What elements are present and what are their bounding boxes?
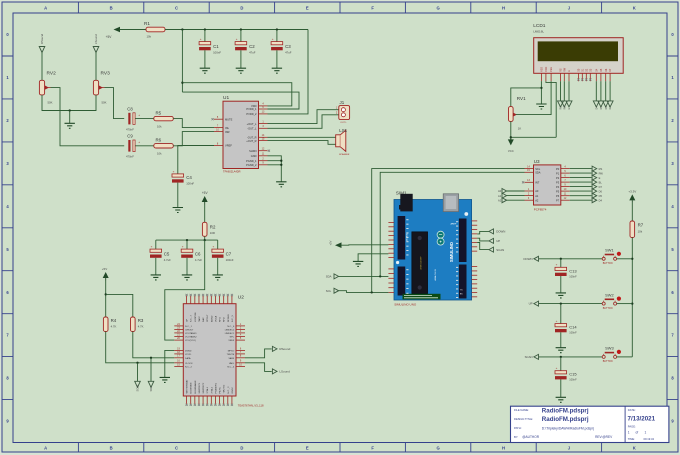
svg-text:SHDN: SHDN [249,149,256,153]
svg-text:K: K [633,6,636,11]
svg-text:INT: INT [535,181,540,185]
junction SCLK tap [136,362,138,364]
svg-text:RadioFM.pdsprj: RadioFM.pdsprj [542,416,589,423]
svg-text:10k: 10k [638,229,643,233]
ground below C15 [556,397,566,402]
wire R7 to button rail [631,238,633,357]
terminal BL (U3 port) [592,180,602,185]
svg-text:4.7uF: 4.7uF [164,258,171,262]
svg-text:D: D [240,6,243,11]
svg-text:R3: R3 [138,318,144,323]
potentiometer RV2 [39,71,56,105]
wire U2 VAFL to LSound [245,363,272,372]
svg-text:N.C._6: N.C._6 [227,326,235,328]
svg-text:+5V: +5V [202,191,209,195]
svg-text:470nF: 470nF [126,155,134,159]
svg-text:DATA: DATA [185,357,191,360]
wire LCD E down [568,81,570,101]
svg-text:REV:@REV: REV:@REV [595,435,613,439]
wire C9 to R6 [135,145,153,147]
svg-text:AGND: AGND [210,315,213,322]
svg-text:INR: INR [225,130,230,134]
wire U3 P1 to RW [570,172,592,174]
terminal RW (LCD) [561,101,567,110]
svg-text:1: 1 [628,430,630,434]
potentiometer RV3 [93,71,110,105]
svg-text:TPA6021A4DR: TPA6021A4DR [223,170,241,174]
svg-text:D6: D6 [599,189,603,193]
wire +3.3V to R7 [631,203,633,221]
wire +OUT_L to J1 pin1 [268,110,339,124]
svg-text:INL: INL [225,126,230,130]
svg-text:BUSMODE: BUSMODE [191,382,193,394]
svg-text:ATMEGA328P: ATMEGA328P [419,256,422,270]
wire LSound to RV3 [95,53,97,81]
svg-text:DESIGN TITLE:: DESIGN TITLE: [514,417,533,421]
svg-text:F: F [371,446,374,451]
svg-text:RV3: RV3 [101,71,111,77]
svg-text:E: E [306,446,309,451]
svg-text:100nF: 100nF [569,274,577,278]
wire SDA tap down [150,358,152,382]
junction rail SW2 [631,302,633,304]
wire LCD VSS to ground [540,81,542,104]
junction RV1 bottom [510,136,512,138]
svg-text:RV1: RV1 [517,96,526,101]
terminal DOWN (from Arduino) [489,229,505,234]
svg-text:DOWN: DOWN [496,230,505,234]
wire RV1 wiper to LCD VEE [516,81,551,114]
resistor R2 [202,222,216,236]
wire Arduino pin to DOWN [477,231,489,234]
wire C14 net [560,304,562,324]
svg-text:F: F [371,6,374,11]
svg-text:GND: GND [251,154,257,158]
svg-text:PVDD_2: PVDD_2 [246,112,257,116]
svg-text:LIMDEC1: LIMDEC1 [225,333,235,335]
svg-text:BUTTON: BUTTON [603,262,613,265]
svg-text:N.C._3: N.C._3 [228,386,230,394]
svg-text:+: + [272,37,274,41]
wire C8 to R5 [135,118,153,120]
svg-text:LCD1: LCD1 [533,23,546,29]
wire C14 to ground [560,332,562,347]
svg-text:AREF: AREF [450,223,456,226]
svg-text:R2: R2 [210,224,216,229]
svg-text:DIGITAL: DIGITAL [406,232,409,241]
svg-text:SWPORT1: SWPORT1 [199,382,201,394]
svg-text:BUTTON: BUTTON [603,360,613,363]
terminal SCL into Arduino A5 [326,288,339,293]
svg-text:UP: UP [496,239,500,243]
junction R4 top [105,293,107,295]
wire U1 VREF to C4 [178,146,214,174]
capacitor C2 [235,30,256,69]
svg-text:XTAL1: XTAL1 [206,386,209,393]
svg-text:RFGND: RFGND [228,314,230,322]
svg-text:C: C [175,6,178,11]
junction on rail at C2 [240,28,242,30]
wire VDD branch [182,83,291,106]
wire Arduino pin to SCAN [477,243,489,250]
terminal SCAN (key input) [525,354,539,359]
svg-text:C: C [175,446,178,451]
wire VCC(VCO) feed to U2 [165,240,205,340]
svg-text:BY:: BY: [514,435,518,439]
svg-text:D: D [240,446,243,451]
speaker LS1 [336,128,350,156]
svg-text:OUT L: OUT L [340,122,347,124]
resistor R3 [131,317,144,332]
ground below pots [65,123,75,128]
svg-text:VCC(VCO): VCC(VCO) [185,340,196,342]
wire C13 to ground [560,276,562,293]
svg-text:LSound: LSound [94,34,98,44]
wire LCD D6 down [605,81,607,101]
terminal RSound (output) [272,346,290,351]
svg-text:TIFC: TIFC [229,337,234,339]
power terminal +5V above R4 [102,267,109,280]
svg-text:100nF: 100nF [569,331,577,335]
wire VSS junction to RV1 top [511,88,542,107]
wire U2 VAFR to RSound [245,349,272,358]
terminal D5 (LCD) [598,101,604,110]
wire U3 P0 to RS [570,168,592,170]
resistor R4 [103,317,116,332]
resistor R5 [154,111,174,129]
op-amp U1 (audio amplifier TPA6021) [212,95,271,173]
svg-text:MPXO: MPXO [228,351,235,353]
svg-text:+: + [138,113,140,117]
junction rail C6 [186,239,188,241]
svg-text:VREF: VREF [228,340,234,342]
svg-text:VREF: VREF [225,144,232,148]
svg-text:RW: RW [599,171,604,175]
svg-text:A2: A2 [498,198,502,202]
svg-text:VCCD: VCCD [185,354,192,356]
capacitor C15 [555,366,577,382]
svg-text:RS: RS [560,106,563,110]
wire U2 DGND to ground [165,350,175,377]
svg-text:C9: C9 [127,134,133,139]
ground below C5 [151,275,161,280]
svg-text:47uF: 47uF [285,51,292,55]
terminal D7 (U3 port) [592,184,602,189]
power terminal VCC below RV1 [508,137,514,153]
svg-text:C15: C15 [569,372,577,377]
svg-text:N.C._1: N.C._1 [185,326,193,328]
svg-text:C14: C14 [569,325,577,330]
svg-text:100nF: 100nF [569,378,577,382]
ground below C3 [272,68,282,73]
svg-text:TADC: TADC [198,316,201,322]
junction on rail at x182 [181,28,183,30]
svg-text:+: + [556,319,558,323]
svg-text:C5: C5 [164,251,170,256]
svg-text:A2: A2 [535,198,539,202]
wire SW3 to rail [617,356,633,358]
wire LCD D5 down [600,81,602,101]
terminal D7 (LCD) [607,101,613,110]
junction on rail at C1 [204,28,206,30]
svg-text:10k: 10k [157,125,162,129]
wire SCAN to SW3 [539,356,602,358]
terminal RW (U3 port) [592,171,603,176]
power terminal +5V to Arduino [329,240,342,248]
svg-text:LOOPSW: LOOPSW [195,311,197,322]
svg-text:R5: R5 [156,111,162,116]
svg-text:+OUT_R: +OUT_R [246,139,256,143]
switch SW3 [602,346,621,363]
capacitor C13 [555,263,577,279]
svg-text:100nF: 100nF [213,51,221,55]
power terminal +5V above R2 [202,191,209,204]
display LCD1 (LM016L) [533,23,623,81]
svg-text:A: A [44,6,47,11]
svg-text:B: B [110,6,113,11]
junction SDA tap [150,357,152,359]
wire LCD VDD down [546,81,556,137]
wire +OUT_R to LS1 [268,141,336,145]
wire C15 net [560,357,562,371]
radio IC U2 (TEA5767) [174,294,264,407]
junction C14 tap [560,302,562,304]
terminal A0 (U3 address) [498,189,524,194]
svg-text:+: + [213,245,215,249]
ground below C4 [173,208,183,213]
terminal LSound (input) [93,34,99,53]
svg-text:C3: C3 [285,44,291,49]
svg-text:BUTTON: BUTTON [603,307,613,310]
switch SW1 [602,248,621,265]
wire SCL riser to U3 [372,169,525,293]
wire RV3 bottom to ground junction [70,95,96,111]
terminal DOWN (key input) [523,256,538,261]
svg-text:N.C._7: N.C._7 [191,314,193,322]
svg-text:+5V: +5V [102,267,107,271]
wire U3 P3 to BL [570,181,592,183]
svg-text:1K: 1K [518,127,522,131]
svg-text:+: + [138,140,140,144]
svg-text:VAFL: VAFL [229,362,235,365]
capacitor C14 [555,319,577,335]
wire R2 to cap rail [204,236,206,240]
capacitor C8 [126,107,140,132]
svg-text:+: + [182,245,184,249]
svg-text:WRITE/READ: WRITE/READ [186,379,189,393]
junction on rail at C3 [276,28,278,30]
wire U3 P6 to D5 [570,195,592,197]
terminal E (U3 port) [592,175,601,180]
svg-text:10R: 10R [210,231,215,235]
wire RV1 bottom rail [511,121,556,137]
wire junction to ground [69,111,71,124]
svg-text:A1: A1 [535,194,539,198]
wire +5V down x182 to U1 supplies [181,30,183,93]
wire U1 GND/PGND to ground [268,156,282,182]
svg-text:D7: D7 [599,185,603,189]
svg-text:J1: J1 [340,100,345,105]
svg-text:H: H [502,6,505,11]
svg-text:PATH:: PATH: [514,426,522,430]
svg-text:SDA: SDA [326,275,332,279]
svg-text:C1: C1 [213,44,219,49]
wire C4 to ground [177,183,179,208]
wire R4 to U2 CLOCK [106,332,175,363]
svg-text:D:\Tripleky\DAWH\RadioFM.pdspr: D:\Tripleky\DAWH\RadioFM.pdsprj [542,426,594,430]
svg-text:P4: P4 [556,185,560,189]
title block [511,406,669,442]
potentiometer RV1 [509,96,527,130]
svg-text:D4: D4 [599,198,603,202]
wire Arduino pin to UP [477,238,489,241]
svg-text:SWPORT2: SWPORT2 [203,382,205,394]
wire R6 to U1 INR [173,132,214,146]
svg-text:VAFR: VAFR [229,357,235,360]
svg-text:+: + [236,37,238,41]
svg-text:R4: R4 [111,318,117,323]
wire PVDD_1 branch [182,92,299,109]
svg-text:4.7K: 4.7K [111,324,117,328]
svg-text:PHASEFIL: PHASEFIL [214,382,217,393]
svg-text:CLOCK: CLOCK [185,363,193,365]
junction VSS/RV1 [540,87,542,89]
wire R5 to U1 INL [173,119,214,128]
svg-text:SW1: SW1 [605,248,613,253]
svg-text:DATE:: DATE: [628,408,636,412]
svg-text:100nF: 100nF [226,258,234,262]
wire SW1 to rail [617,258,633,260]
power terminal +3.3V [628,190,636,203]
capacitor C7 [212,240,234,275]
capacitor C5 [150,240,171,275]
svg-text:+5V: +5V [329,240,333,245]
svg-text:H: H [502,446,505,451]
terminal A2 (U3 address) [498,198,524,203]
ground below C2 [236,68,246,73]
wire LCD RW down [563,81,565,101]
svg-text:P6: P6 [556,194,560,198]
junction at 182/82.7 [181,82,183,84]
wire C15 to ground [560,379,562,397]
junction C15 tap [560,356,562,358]
svg-text:U1: U1 [223,95,229,101]
svg-text:C6: C6 [195,251,201,256]
svg-text:CPOUT: CPOUT [207,314,209,322]
svg-text:FILE NAME:: FILE NAME: [514,408,529,412]
resistor R7 [630,221,644,238]
svg-text:N.C._4: N.C._4 [227,367,235,369]
terminal SDA into Arduino A4 [326,274,339,279]
svg-text:E: E [599,176,601,180]
svg-text:P3: P3 [556,180,560,184]
capacitor C6 [181,240,202,275]
svg-text:TMUTE: TMUTE [227,354,235,356]
connector J1 [336,100,350,124]
svg-text:B: B [110,446,113,451]
svg-text:R1: R1 [144,21,150,26]
svg-text:VEE: VEE [550,67,553,72]
svg-text:BL: BL [599,180,603,184]
svg-text:RadioFM.pdsprj: RadioFM.pdsprj [542,407,589,414]
ground below C13 [556,293,566,298]
wire UP to SW2 [539,303,602,305]
wire SW2 to rail [617,303,633,305]
ground below C14 [556,348,566,353]
junction PGND_1 [280,160,282,162]
IO expander U3 (PCF8574) [522,159,570,211]
svg-text:K: K [633,446,636,451]
svg-text:PGND_1: PGND_1 [246,159,257,163]
svg-text:A: A [44,446,47,451]
svg-text:PILFIL: PILFIL [220,386,222,393]
svg-text:R6: R6 [156,138,162,143]
svg-text:SW2: SW2 [605,292,613,297]
svg-text:DAC: DAC [202,317,205,322]
wire LCD RS down [560,81,562,101]
wire +5V to R4/R3 [105,281,107,318]
wire PVDD_2 branch [268,30,309,114]
svg-text:LS1: LS1 [339,128,347,133]
svg-text:RS: RS [599,167,603,171]
svg-text:SIMULINO UNO: SIMULINO UNO [394,303,417,307]
svg-text:RV2: RV2 [47,71,57,77]
svg-text:D5: D5 [599,194,603,198]
svg-text:4.7K: 4.7K [138,324,144,328]
svg-text:P1: P1 [556,171,560,175]
wire -OUT_L to J1 pin2 [268,115,339,129]
resistor R6 [154,138,174,156]
junction SDA riser [379,275,381,277]
wire +5V rail [165,29,308,31]
svg-text:N.C._5: N.C._5 [232,314,234,322]
svg-text:PVDD_1: PVDD_1 [246,107,257,111]
svg-text:7/13/2021: 7/13/2021 [628,416,656,423]
ground below U1 [276,182,286,187]
svg-text:LIMDEC2: LIMDEC2 [225,330,235,332]
svg-text:SDA: SDA [535,171,541,175]
svg-text:RS: RS [560,68,563,72]
svg-text:DGND: DGND [185,351,192,353]
wire R3 to U2 DATA [133,332,175,358]
svg-text:PAGE:: PAGE: [628,425,636,429]
svg-text:10k: 10k [147,35,152,39]
svg-text:1: 1 [645,430,647,434]
svg-text:P7: P7 [556,198,560,202]
wire RV3 wiper to C8 [105,88,125,119]
ground below LCD VSS [536,104,546,109]
terminal D4 (LCD) [593,101,599,110]
terminal RS (U3 port) [592,166,602,171]
svg-text:of: of [636,430,639,434]
svg-text:SCL: SCL [326,289,332,293]
svg-text:U2: U2 [238,295,244,301]
wire R4 junction to R3 [106,294,133,317]
svg-text:GND2: GND2 [232,387,234,394]
junction rail SW1 [631,258,633,260]
svg-text:VDD: VDD [545,66,548,71]
terminal D5 (U3 port) [592,193,602,198]
svg-text:SCAN: SCAN [525,355,533,359]
svg-text:LSound: LSound [279,370,290,374]
svg-text:-OUT_L: -OUT_L [247,127,257,131]
svg-text:G: G [436,446,439,451]
wire +5V to R2 [204,205,206,223]
svg-text:+: + [200,37,202,41]
terminal D4 (U3 port) [592,198,602,203]
terminal LSound (output) [272,369,290,374]
terminal UP (from Arduino) [489,238,500,243]
